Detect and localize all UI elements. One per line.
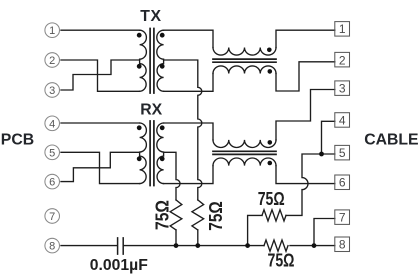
svg-text:0.001µF: 0.001µF <box>90 257 148 274</box>
svg-text:PCB: PCB <box>1 132 34 149</box>
svg-text:4: 4 <box>339 113 346 127</box>
svg-text:7: 7 <box>49 211 55 223</box>
svg-text:5: 5 <box>49 147 55 159</box>
svg-text:TX: TX <box>140 8 161 25</box>
svg-text:3: 3 <box>339 82 346 96</box>
svg-text:2: 2 <box>49 55 55 67</box>
svg-text:6: 6 <box>339 176 346 190</box>
svg-text:1: 1 <box>49 25 55 37</box>
svg-text:8: 8 <box>49 241 55 253</box>
svg-text:6: 6 <box>49 177 55 189</box>
svg-text:4: 4 <box>49 118 55 130</box>
svg-text:5: 5 <box>339 146 346 160</box>
svg-text:75Ω: 75Ω <box>152 200 173 230</box>
svg-text:7: 7 <box>339 211 346 225</box>
svg-text:75Ω: 75Ω <box>258 188 285 209</box>
svg-text:1: 1 <box>339 22 346 36</box>
svg-text:3: 3 <box>49 85 55 97</box>
svg-text:CABLE: CABLE <box>364 132 418 149</box>
svg-text:2: 2 <box>339 53 346 67</box>
svg-text:75Ω: 75Ω <box>205 201 226 231</box>
svg-text:8: 8 <box>339 238 346 252</box>
svg-text:75Ω: 75Ω <box>268 249 295 270</box>
svg-text:RX: RX <box>140 102 162 119</box>
